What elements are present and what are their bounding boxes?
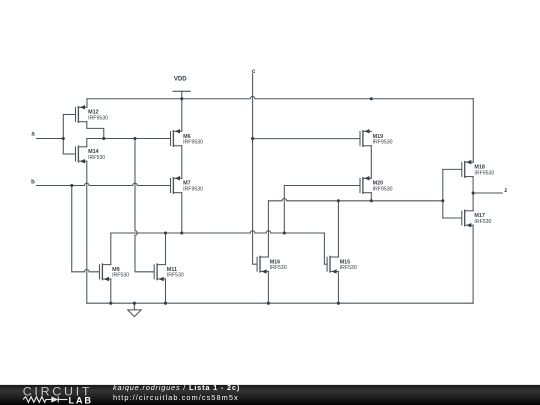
svg-text:VDD: VDD [174,76,187,82]
svg-text:IRF530: IRF530 [340,265,357,271]
svg-text:z: z [504,188,507,194]
svg-text:kaique.rodrigues / Lista 1 - 2: kaique.rodrigues / Lista 1 - 2c) [113,383,240,392]
svg-text:IRF530: IRF530 [474,219,491,225]
svg-text:LAB: LAB [69,396,92,405]
svg-text:IRF530: IRF530 [112,273,129,279]
svg-text:IRF9530: IRF9530 [373,139,393,145]
svg-text:http://circuitlab.com/cs58m5x: http://circuitlab.com/cs58m5x [113,393,239,402]
svg-text:IRF530: IRF530 [88,155,105,161]
svg-text:b: b [31,179,35,185]
svg-text:IRF530: IRF530 [167,273,184,279]
svg-text:IRF9530: IRF9530 [88,115,108,121]
svg-text:IRF9530: IRF9530 [373,186,393,192]
svg-text:IRF530: IRF530 [270,265,287,271]
svg-text:IRF9530: IRF9530 [183,186,203,192]
svg-text:IRF9530: IRF9530 [474,170,494,176]
svg-text:IRF9530: IRF9530 [183,139,203,145]
